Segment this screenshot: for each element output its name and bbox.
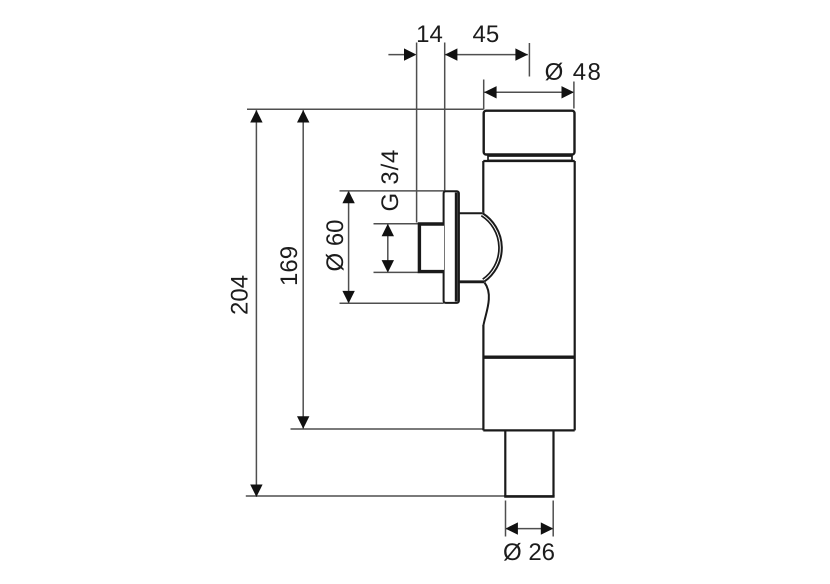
fillet curve below dome xyxy=(483,283,488,326)
valve body right edge xyxy=(574,161,576,430)
thick separator line lower body xyxy=(483,356,574,359)
wall flange plate xyxy=(444,191,459,303)
valve body bottom edge xyxy=(483,429,574,431)
D48 extension right xyxy=(573,82,575,109)
dimension line 169 xyxy=(302,110,304,428)
dimension line D60 xyxy=(348,191,350,303)
extension line pipe bottom (204) xyxy=(246,495,505,497)
extension line at flange face (14/45) xyxy=(444,43,446,191)
valve body left edge upper segment xyxy=(482,161,484,214)
G3/4 tick bottom xyxy=(374,271,419,273)
valve body top edge xyxy=(483,160,574,162)
inlet dome white fill xyxy=(458,212,503,281)
D26 extension right xyxy=(552,501,554,537)
wall flange front face line xyxy=(455,193,458,302)
dimension line D26 xyxy=(506,528,554,530)
svg-text:204: 204 xyxy=(227,275,254,315)
svg-text:G 3/4: G 3/4 xyxy=(377,149,404,212)
extension line body bottom (169) xyxy=(291,428,484,430)
dimension line D48 xyxy=(484,91,574,93)
D60 extension top xyxy=(340,190,445,192)
svg-text:169: 169 xyxy=(276,246,303,286)
valve body left edge lower segment xyxy=(482,325,484,430)
svg-text:Ø 26: Ø 26 xyxy=(503,539,555,566)
dimension line 45 xyxy=(445,54,528,56)
extension line at thread end (14) xyxy=(416,43,418,223)
inlet dome outer arc xyxy=(483,213,502,281)
outlet pipe bottom edge xyxy=(504,495,554,498)
svg-text:45: 45 xyxy=(473,21,500,48)
threaded spigot G3/4 xyxy=(419,224,444,272)
dimension 14 leader xyxy=(388,54,406,56)
D60 extension bottom xyxy=(340,302,444,304)
dimension line G3/4 xyxy=(387,224,389,272)
svg-text:Ø 60: Ø 60 xyxy=(322,219,349,271)
svg-text:Ø 48: Ø 48 xyxy=(545,59,603,86)
inlet dome top line xyxy=(459,212,483,214)
outlet pipe right edge xyxy=(552,431,554,496)
top cap of valve body xyxy=(484,111,575,155)
D26 extension left xyxy=(505,501,507,537)
D48 extension left xyxy=(483,80,485,110)
inlet dome bottom line xyxy=(459,280,484,283)
extension line top (cap top to left dims) xyxy=(247,108,484,110)
inlet dome inner arc xyxy=(481,216,499,280)
svg-text:14: 14 xyxy=(416,21,443,48)
dimension line 204 xyxy=(255,110,257,497)
groove ring under cap xyxy=(488,156,572,160)
outlet pipe left edge xyxy=(504,431,506,496)
G3/4 tick top xyxy=(374,223,419,225)
centerline tick at pipe axis xyxy=(528,43,530,77)
